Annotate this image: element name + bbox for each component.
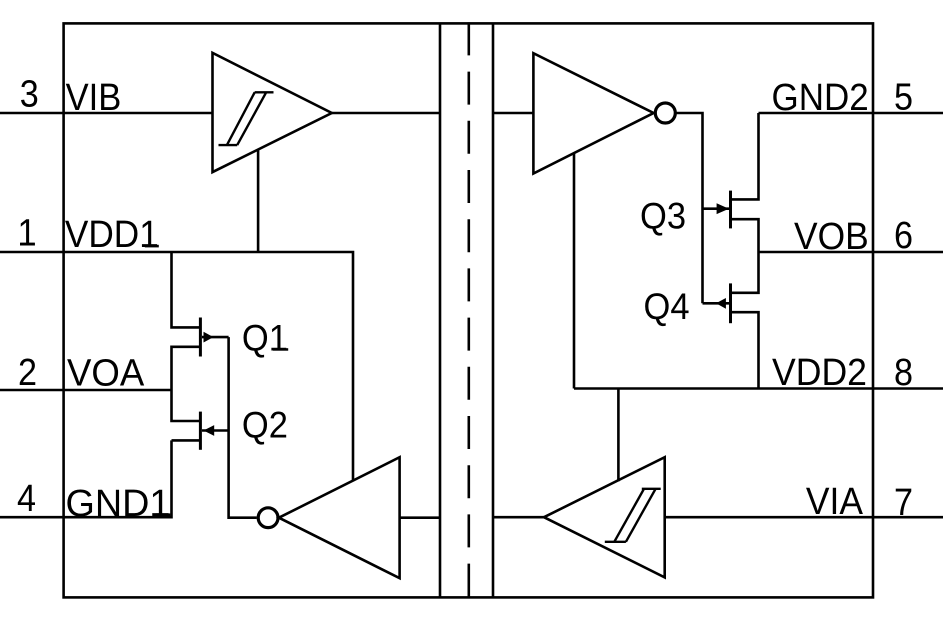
transistor Q3 arrow: [717, 203, 729, 214]
wire pin4 GND1: [0, 440, 172, 517]
wire pin6 VOB: [759, 251, 943, 254]
isolation barrier left wall: [439, 23, 442, 597]
wire N2 power stub to VDD2: [573, 153, 576, 388]
transistor Q3 channel bar: [729, 191, 732, 229]
inverter N1 bubble: [258, 508, 278, 528]
digit 1 base serif in GND1: [156, 513, 170, 516]
svg-text:VOA: VOA: [67, 353, 145, 395]
hysteresis symbol of A1: [219, 92, 274, 145]
svg-text:2: 2: [18, 352, 37, 394]
hysteresis symbol of A2: [605, 489, 661, 542]
inverter N2 triangle (points right): [533, 53, 653, 173]
wire VDD1 rail to Q1 source: [172, 252, 201, 327]
wire A2 power stub to VDD2: [617, 389, 620, 482]
transistor Q4 arrow: [716, 298, 726, 309]
wire A1 output to barrier: [332, 112, 440, 115]
svg-text:8: 8: [894, 352, 913, 394]
svg-text:VDD2: VDD2: [772, 352, 867, 394]
transistor Q3 gate wire: [703, 207, 730, 210]
schmitt buffer A1 (channel B input, top left): [213, 53, 332, 172]
svg-text:6: 6: [894, 215, 913, 257]
wire pin5 GND2: [759, 112, 943, 115]
digit 1 base serif of pin1: [20, 243, 35, 246]
inverter N2 bubble: [655, 103, 675, 123]
transistor Q1 channel bar: [199, 318, 202, 357]
transistor Q2 gate wire: [202, 429, 229, 432]
svg-text:Q4: Q4: [644, 286, 690, 327]
svg-text:VIB: VIB: [66, 77, 122, 119]
svg-text:Q3: Q3: [640, 195, 686, 236]
wire N2 output to Q3/Q4 gate rail: [675, 113, 702, 303]
svg-text:VDD1: VDD1: [65, 214, 159, 256]
wire pin1 VDD1: [0, 252, 353, 481]
wire Q1 drain stub: [172, 347, 201, 421]
wire barrier to inverter N2 input: [493, 112, 533, 115]
transistor Q1 gate wire: [202, 336, 229, 339]
inverter N1 triangle (points left): [279, 457, 400, 578]
svg-text:5: 5: [894, 76, 913, 118]
schmitt buffer A2 (channel A input, bottom right, points left): [544, 457, 665, 577]
wire N1 input from barrier: [400, 516, 440, 519]
svg-text:7: 7: [894, 482, 913, 524]
transistor Q2 arrow: [204, 425, 215, 436]
wire pin7 VIA input: [665, 516, 943, 519]
wire Q2 source stub: [172, 439, 201, 442]
svg-text:GND2: GND2: [772, 77, 869, 119]
wire pin3 VIB input: [0, 112, 213, 115]
transistor Q2 channel bar: [199, 412, 202, 450]
svg-text:4: 4: [17, 478, 36, 520]
svg-text:1: 1: [18, 213, 37, 255]
transistor Q4 channel bar: [729, 283, 732, 323]
wire Q3 source stub: [731, 219, 759, 293]
svg-text:Q2: Q2: [242, 405, 288, 446]
svg-text:VOB: VOB: [794, 216, 869, 258]
isolation barrier center dashed line: [467, 22, 470, 597]
wire Q4 source stub to VDD2 rail: [731, 312, 759, 388]
svg-text:Q1: Q1: [242, 317, 288, 358]
digit 1 base serif in VDD1: [145, 245, 159, 248]
transistor Q4 gate wire: [703, 302, 730, 305]
outer package box: [64, 23, 873, 597]
svg-text:GND1: GND1: [66, 483, 171, 525]
isolation barrier right wall: [492, 23, 495, 597]
wire pin2 VOA: [0, 389, 172, 392]
wire pin8 VDD2: [574, 387, 943, 390]
svg-text:3: 3: [20, 74, 39, 116]
wire A1 power stub to VDD1: [257, 150, 260, 252]
transistor Q1 arrow: [204, 332, 214, 343]
wire Q3 drain stub to GND2 rail: [731, 113, 759, 199]
svg-text:VIA: VIA: [806, 481, 864, 523]
wire gate rail from inverter N1 to Q1/Q2: [229, 337, 257, 518]
wire A2 output to barrier: [493, 516, 544, 519]
digit 1 base serif in Q1: [273, 348, 288, 351]
